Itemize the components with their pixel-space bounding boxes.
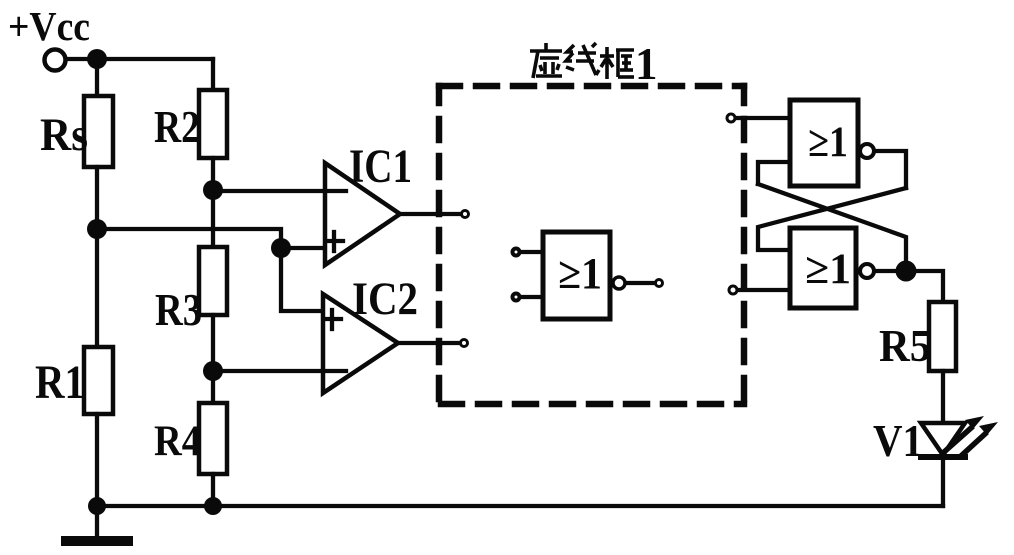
svg-text:R5: R5 — [879, 320, 931, 371]
label dashed-box title (CJK drawn as paths) — [530, 43, 634, 79]
char kuang — [605, 47, 609, 79]
terminal U1 output — [656, 280, 663, 287]
wire ground lead — [95, 506, 99, 540]
wire Vcc rail horizontal — [66, 57, 213, 61]
wire node to IC2 inverting input — [213, 369, 346, 373]
wire V1 cathode down — [941, 457, 945, 506]
svg-text:V1: V1 — [873, 415, 923, 466]
power terminal Vcc — [45, 50, 66, 71]
wire R4 bottom lead — [211, 474, 215, 506]
terminal latch input R — [729, 286, 737, 294]
wire Q node to R5 — [906, 271, 943, 304]
U3 output bubble — [860, 264, 874, 278]
wire cross diagonal U3out to U2in — [758, 184, 906, 271]
svg-text:R2: R2 — [154, 102, 200, 152]
char xian — [567, 45, 574, 52]
junction R4/ground rail — [204, 497, 222, 515]
junction R3/R4 node — [203, 361, 223, 381]
wire R3 to R4 — [211, 315, 215, 405]
junction Rs/R1 node — [87, 219, 107, 239]
wire branch to IC1 non-inverting input — [281, 246, 344, 250]
gate U2 NOR box — [790, 100, 858, 186]
U1 output bubble — [613, 277, 625, 289]
junction Vcc/Rs — [87, 49, 107, 69]
terminal U1 input B — [513, 294, 520, 301]
dashed box 1 left edge — [436, 86, 443, 404]
char xu — [544, 43, 548, 51]
LED V1 diode triangle — [921, 423, 965, 455]
dashed box 1 right edge — [741, 86, 748, 404]
svg-text:+Vcc: +Vcc — [8, 3, 90, 49]
resistor Rs — [84, 96, 113, 167]
svg-text:IC2: IC2 — [352, 273, 418, 325]
resistor R1 — [84, 347, 113, 414]
wire U2 second input stub — [758, 162, 790, 184]
wire R2 to R3 — [211, 158, 215, 249]
resistor R5 — [929, 302, 956, 371]
svg-text:1: 1 — [635, 39, 658, 89]
wire bottom ground rail — [97, 504, 943, 508]
IC1 minus sign — [328, 189, 346, 193]
IC2 minus sign — [326, 369, 346, 373]
svg-text:R1: R1 — [35, 356, 85, 409]
op-amp IC1 — [325, 163, 400, 265]
wire IC1 output — [400, 212, 460, 216]
wire U2 output to cross — [876, 151, 906, 188]
gate U3 NOR box — [790, 228, 856, 308]
IC2 plus sign — [324, 317, 341, 321]
resistor R2 — [199, 90, 227, 158]
terminal IC1 output — [462, 211, 469, 218]
wire IC2 output — [398, 341, 459, 345]
svg-text:IC1: IC1 — [349, 140, 412, 193]
IC1 plus sign — [326, 239, 343, 243]
wire node to IC1 inverting input — [213, 189, 346, 193]
resistor R4 — [199, 403, 227, 474]
U2 output bubble — [860, 144, 874, 158]
svg-text:R4: R4 — [154, 418, 201, 465]
junction ground node left — [88, 497, 106, 515]
wire S input to U2 — [736, 116, 790, 120]
resistor R3 — [199, 247, 227, 315]
wire Rs top lead — [95, 59, 99, 98]
wire U1 output — [627, 281, 654, 285]
LED V1 arrow 1 — [944, 428, 971, 452]
wire R input to U3 — [738, 288, 790, 292]
svg-text:≥1: ≥1 — [558, 249, 602, 298]
terminal U1 input A — [513, 249, 520, 256]
svg-text:≥1: ≥1 — [805, 246, 851, 293]
wire R1 bottom lead — [95, 414, 99, 506]
wire U1 input A — [520, 250, 543, 254]
ground — [61, 536, 133, 546]
svg-text:R3: R3 — [155, 285, 202, 335]
wire cross diagonal U2out to U3in — [758, 188, 906, 250]
svg-text:Rs: Rs — [40, 109, 88, 161]
junction R2/R3 node — [203, 180, 223, 200]
wire Rs bottom lead — [95, 167, 99, 229]
terminal IC2 output — [461, 340, 468, 347]
LED V1 cathode bar — [921, 454, 965, 460]
wire Rs node to non-inverting inputs — [97, 229, 344, 311]
dashed box 1 top edge — [439, 83, 744, 90]
dashed box 1 bottom edge — [441, 401, 744, 408]
wire U1 input B — [520, 295, 543, 299]
wire R2 top lead — [211, 59, 215, 92]
wire U3 output — [876, 269, 898, 273]
wire node to R1 top — [95, 229, 99, 349]
svg-text:≥1: ≥1 — [808, 119, 848, 166]
junction Q output node — [896, 261, 917, 282]
LED V1 arrow 2 — [962, 434, 985, 455]
wire R5 to V1 — [941, 371, 945, 425]
junction non-inverting branch — [271, 238, 291, 258]
terminal latch input S — [727, 114, 735, 122]
gate U1 OR box — [543, 232, 610, 319]
op-amp IC2 — [323, 294, 398, 393]
